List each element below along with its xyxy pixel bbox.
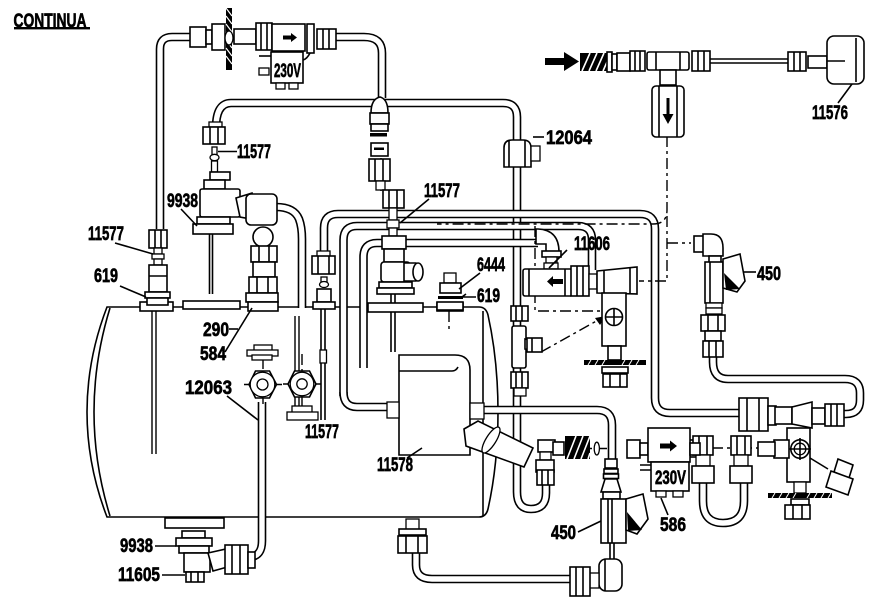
svg-text:9938: 9938 — [120, 536, 153, 557]
svg-text:450: 450 — [757, 264, 781, 285]
svg-text:586: 586 — [660, 515, 686, 536]
svg-text:230V: 230V — [655, 468, 686, 489]
svg-text:12063: 12063 — [185, 378, 232, 399]
svg-text:11577: 11577 — [88, 224, 124, 245]
svg-text:584: 584 — [200, 344, 226, 365]
svg-text:6444: 6444 — [477, 255, 505, 276]
svg-text:12064: 12064 — [546, 128, 592, 149]
svg-text:619: 619 — [477, 286, 500, 307]
svg-text:619: 619 — [94, 266, 118, 287]
svg-text:11577: 11577 — [424, 181, 460, 202]
svg-text:11577: 11577 — [237, 142, 271, 163]
svg-text:230V: 230V — [274, 61, 301, 82]
svg-text:11606: 11606 — [574, 234, 610, 255]
svg-text:11605: 11605 — [118, 565, 160, 586]
svg-text:11576: 11576 — [812, 103, 848, 124]
svg-text:450: 450 — [551, 523, 576, 544]
svg-text:290: 290 — [203, 320, 229, 341]
svg-text:9938: 9938 — [167, 191, 198, 212]
svg-text:11577: 11577 — [305, 422, 339, 443]
